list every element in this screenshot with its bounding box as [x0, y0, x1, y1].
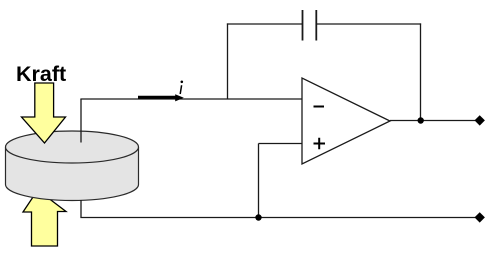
wire: sensor top lead (vertical into disc)	[80, 99, 82, 143]
current arrow i	[138, 96, 176, 99]
piezo disc top face	[6, 131, 139, 163]
piezo disc body	[6, 147, 139, 201]
capacitor C left plate	[302, 10, 304, 41]
op-amp non-inverting input marker	[314, 138, 326, 150]
wire: top feedback left segment	[227, 23, 302, 25]
capacitor C right plate	[315, 10, 317, 41]
wire: non-inverting vertical to ground rail	[258, 144, 260, 218]
wire: op-amp output	[390, 120, 476, 122]
ground terminal (diamond)	[475, 212, 485, 222]
up force arrow (reaction)	[23, 190, 66, 246]
junction dot at output/feedback node	[418, 117, 424, 123]
wire: main input to inverting input	[80, 98, 302, 100]
wire: bottom ground rail	[80, 217, 475, 219]
down force arrow (Kraft)	[22, 83, 66, 143]
wire: top feedback right segment	[316, 23, 421, 25]
label i	[181, 81, 184, 84]
wire: right feedback vertical	[420, 23, 422, 120]
svg-text:Kraft: Kraft	[16, 62, 66, 86]
junction dot on ground rail	[255, 214, 261, 220]
op-amp inverting input marker	[314, 106, 325, 108]
wire: sensor bottom lead	[80, 200, 82, 218]
op-amp U1	[302, 78, 390, 164]
output terminal (diamond)	[475, 115, 485, 125]
wire: non-inverting input horizontal	[259, 143, 303, 145]
wire: left feedback vertical	[227, 23, 229, 99]
